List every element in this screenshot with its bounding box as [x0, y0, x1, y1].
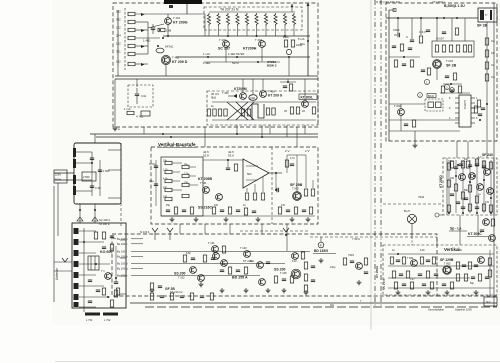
left rail x389: [388, 10, 390, 141]
top resistor row: [447, 159, 492, 170]
svg-text:Ca: Ca: [491, 39, 495, 43]
right border rail: [493, 3, 495, 307]
netz top riser: [94, 134, 96, 143]
cap near T602: [404, 120, 416, 127]
left rail caps: [149, 160, 158, 206]
svg-text:SF 129B: SF 129B: [440, 258, 454, 262]
trimmer oval 040: [249, 95, 257, 101]
svg-text:0.22: 0.22: [292, 260, 297, 263]
top-right outer fold lines: [374, 0, 376, 308]
label kt209a: [243, 259, 254, 263]
transistor T101: [208, 241, 226, 253]
wire riser col: [147, 22, 149, 54]
x-box bottom wire: [212, 119, 316, 121]
svg-text:7 90 6: 7 90 6: [352, 237, 360, 241]
transistor SS216C: [198, 194, 222, 210]
svg-text:T 402: T 402: [172, 56, 180, 60]
bus y36: [163, 35, 310, 37]
SS200 stage: [174, 272, 204, 282]
left-middle netz block: [74, 143, 121, 204]
svg-text:220V: 220V: [55, 173, 61, 177]
bottom bus line 2: [145, 306, 497, 308]
coil bar 2: [73, 159, 76, 168]
top-right lower cluster: [389, 56, 420, 67]
svg-text:T 102: T 102: [178, 276, 185, 280]
right-mid block top ticks: [447, 158, 494, 215]
top-right mid cluster2: [440, 86, 470, 93]
KT209G emitter wire: [167, 25, 169, 38]
KT 209C label: [467, 232, 489, 237]
filter box with resistors: [432, 41, 474, 57]
tiny labels bottom: [166, 204, 286, 207]
svg-text:.040: .040: [250, 96, 256, 100]
page bottom edge: [55, 361, 500, 363]
risers from top block: [144, 125, 305, 147]
top-right extra caps row: [392, 17, 438, 51]
top right riser wires: [287, 155, 306, 192]
antenna wires: [54, 262, 72, 271]
svg-text:Sp - La: Sp - La: [450, 227, 461, 231]
svg-text:T 802: T 802: [444, 262, 451, 266]
col wires: [172, 163, 198, 190]
svg-text:2 500: 2 500: [83, 175, 90, 179]
netz cap 1: [90, 158, 94, 164]
svg-text:132: 132: [116, 42, 121, 46]
resistor network sub-box: [204, 7, 302, 30]
circled 1: [424, 79, 429, 84]
svg-text:4.7k: 4.7k: [163, 178, 168, 181]
br transistor 2: [443, 266, 452, 275]
svg-text:1.4kΩ 547kΩ: 1.4kΩ 547kΩ: [228, 52, 244, 56]
svg-text:0.47: 0.47: [410, 278, 415, 281]
IC pin labels: [449, 97, 478, 120]
tuner wires h: [79, 231, 110, 307]
tuner trafo box: [88, 256, 99, 270]
svg-text:KT 209L: KT 209L: [301, 95, 313, 99]
if tiny labels: [186, 252, 336, 269]
svg-text:T 401: T 401: [173, 16, 181, 20]
netz cap 3: [90, 186, 101, 190]
svg-text:9kΩ: 9kΩ: [211, 96, 216, 100]
rects after staircase: [266, 108, 275, 115]
input resistor row 4: [116, 34, 160, 40]
title tick: [169, 5, 173, 8]
box label: [427, 94, 436, 98]
if long wire 2: [143, 262, 285, 264]
br transistor 1: [407, 256, 417, 266]
double wire y233: [240, 231, 437, 237]
pin row 1: [113, 237, 143, 241]
above-tuner diodes: [77, 217, 111, 226]
svg-text:SF 2B: SF 2B: [477, 24, 488, 28]
bottom bus of block: [161, 215, 315, 217]
right-mid extra row: [450, 161, 485, 177]
netz inner wires: [76, 152, 100, 196]
zigzag resistor bank: [207, 12, 295, 26]
svg-text:T 103: T 103: [240, 246, 247, 250]
transistor KT209H: [243, 38, 265, 51]
under-triangle resistors: [245, 177, 264, 200]
mains lines left: [54, 173, 74, 180]
X-pattern sub-box: [207, 91, 318, 125]
svg-text:0.47µ: 0.47µ: [149, 162, 156, 166]
double bus y137: [96, 136, 318, 138]
speaker circle: [404, 209, 417, 237]
transistor SC237: [218, 38, 230, 51]
svg-text:25µ: 25µ: [166, 204, 171, 207]
svg-text:1 mA: 1 mA: [124, 107, 131, 111]
svg-text:60a: 60a: [300, 42, 305, 46]
svg-text:470: 470: [222, 263, 227, 266]
Sp-La label: [449, 227, 467, 232]
mid cluster x345: [343, 253, 368, 274]
svg-text:820: 820: [163, 187, 168, 190]
pin row 4: [117, 255, 143, 259]
svg-text:547kΩ: 547kΩ: [165, 45, 173, 49]
SS200 second: [274, 268, 287, 276]
svg-text:BD 255 A: BD 255 A: [232, 276, 248, 280]
BD255A stage: [232, 276, 265, 286]
mid-right connect wires: [412, 215, 478, 245]
coil slug 2: [74, 239, 79, 245]
bottom component row: [166, 207, 194, 214]
x-box left stub: [211, 92, 219, 100]
transistor SF29B: [290, 183, 303, 200]
resistor rows col1: [165, 161, 172, 200]
left rail wire: [117, 10, 119, 66]
wire T602 drop: [400, 104, 402, 131]
svg-text:7904: 7904: [348, 253, 354, 257]
right rail labels: [491, 39, 495, 79]
svg-text:L 731: L 731: [86, 318, 93, 322]
netz right dashed edge: [120, 143, 122, 227]
resistor R601: [419, 28, 422, 43]
svg-text:C42: C42: [141, 94, 147, 98]
emitter wire KT209D: [165, 65, 167, 76]
below-tuner bar 2: [103, 313, 118, 316]
svg-text:6.8k: 6.8k: [186, 252, 191, 255]
transistor SF2B lower: [433, 59, 457, 68]
netz cap 2: [98, 169, 110, 173]
transistor KT209B: [198, 177, 212, 193]
svg-text:Tr: Tr: [485, 13, 488, 17]
svg-text:53.6: 53.6: [228, 154, 234, 158]
bus dots: [227, 35, 286, 37]
svg-text:BCO: BCO: [428, 94, 435, 98]
bottom title text: [428, 308, 472, 312]
IF band dashed border: [112, 234, 437, 296]
x-box top wire: [212, 101, 316, 103]
svg-text:C 58: C 58: [95, 186, 101, 190]
svg-text:302: 302: [116, 18, 121, 22]
top margin text row: [376, 0, 445, 4]
svg-text:502: 502: [247, 172, 252, 176]
IC U601: [455, 95, 475, 127]
left col comps: [114, 246, 118, 297]
GF2B stage: [150, 283, 175, 291]
br right column: [488, 250, 491, 296]
pin row 3: [117, 250, 143, 254]
br wire rows: [388, 254, 494, 288]
coil slug 3: [74, 250, 79, 256]
pin row 2: [117, 242, 143, 246]
svg-text:T 105: T 105: [280, 271, 287, 275]
bold mini label KT208: [267, 60, 277, 68]
coil slug 7: [74, 294, 79, 300]
right col resistors: [304, 180, 314, 196]
top resistor pair right: [285, 157, 295, 167]
title black bar: [164, 0, 202, 4]
drops from vertikal block: [180, 224, 287, 251]
antenna-arrow top1: [152, 228, 158, 240]
svg-text:SS 200: SS 200: [274, 268, 286, 272]
svg-text:122: 122: [116, 26, 121, 30]
svg-text:Bu 100 c: Bu 100 c: [117, 242, 128, 246]
transistor T104: [257, 262, 271, 269]
risers from double bus to x-box: [243, 79, 305, 100]
far right rect: [312, 107, 315, 114]
tr upper caps row2: [426, 17, 459, 35]
riser to bus: [117, 66, 119, 76]
node dot r1: [159, 29, 161, 31]
bottom numbers row: [330, 300, 362, 307]
br cluster 3: [456, 262, 478, 269]
tuner right ticks: [120, 240, 126, 294]
svg-text:T 405: T 405: [222, 91, 229, 95]
br cluster 2: [420, 257, 435, 264]
capacitor C402: [151, 24, 155, 34]
main bus y18: [386, 17, 478, 19]
dashed link y200: [383, 203, 443, 205]
svg-text:Bu 100 a: Bu 100 a: [117, 255, 128, 259]
ground left: [113, 79, 120, 131]
right resistor group: [290, 107, 299, 114]
transistor KT209G: [165, 16, 188, 25]
svg-text:470: 470: [281, 204, 286, 207]
bottom-right vertikal block: [383, 245, 497, 295]
transistor KT209D: [161, 55, 187, 64]
transistor T602: [394, 104, 404, 115]
staircase wire: [252, 104, 264, 120]
pin row 6: [117, 267, 143, 271]
label KT209M: [222, 87, 247, 95]
netz small box: [82, 172, 96, 181]
resistor 4.7k: [124, 107, 143, 119]
svg-text:1.4kΩ: 1.4kΩ: [143, 39, 150, 43]
label 1.4k bus: [228, 52, 244, 58]
svg-text:Bu 5: Bu 5: [404, 209, 410, 213]
rm tiny labels: [450, 156, 490, 204]
svg-text:8.2k: 8.2k: [420, 249, 425, 252]
tiny value labels: [163, 160, 189, 199]
top-right block dashed border: [386, 3, 497, 141]
svg-text:B,20N)1 1 2U: B,20N)1 1 2U: [444, 4, 465, 8]
coil bar 4: [73, 186, 76, 195]
svg-text:Bu 100 g: Bu 100 g: [117, 267, 128, 271]
svg-text:KT 209G: KT 209G: [173, 21, 188, 25]
top-left block dashed border: [113, 3, 318, 127]
mid caps: [226, 159, 238, 171]
svg-text:Cb: Cb: [491, 51, 495, 55]
wire y120: [389, 119, 459, 121]
br cluster row3: [456, 274, 489, 281]
resistor R405: [158, 28, 172, 32]
double bus y76: [115, 75, 318, 77]
tuner dots: [83, 241, 109, 298]
svg-text:T 501: T 501: [200, 181, 207, 185]
svg-text:1.2k: 1.2k: [163, 169, 168, 172]
coil slug 1: [74, 228, 79, 234]
netz bottom drops: [54, 183, 95, 302]
svg-text:Bu 100 e: Bu 100 e: [117, 274, 128, 278]
inner solid box: [161, 157, 203, 216]
rail stub top: [389, 9, 396, 12]
title drop wire: [186, 4, 188, 14]
bottom dashed bus: [437, 295, 497, 297]
svg-text:A 205 D: A 205 D: [463, 100, 467, 109]
coil bar 3: [73, 175, 76, 184]
svg-text:2 V: 2 V: [305, 149, 310, 153]
cap C602: [406, 33, 414, 42]
right rail x308: [298, 3, 309, 77]
double bus y134: [90, 133, 318, 135]
svg-text:7904: 7904: [418, 195, 425, 199]
svg-text:KT209H: KT209H: [243, 47, 257, 51]
bottom grounds: [170, 217, 311, 222]
svg-text:52.8: 52.8: [203, 154, 209, 158]
zigzag drops to bus: [209, 26, 294, 36]
if long wire 1: [143, 250, 310, 252]
svg-text:Bu 100 f: Bu 100 f: [117, 250, 127, 254]
cap row mid: [275, 173, 279, 192]
br grounds: [396, 290, 479, 295]
BD135 label: [313, 249, 336, 254]
node dot r2: [162, 37, 164, 39]
vertikal-baustufe block dashed border: [151, 147, 318, 224]
rm bottom pins: [448, 212, 492, 214]
svg-text:KT 209B: KT 209B: [198, 177, 212, 181]
Y junction arrow: [283, 228, 289, 236]
svg-text:C: C: [406, 35, 408, 39]
input resistor row 3: [116, 26, 148, 32]
svg-text:TA 207 2x N: TA 207 2x N: [220, 8, 239, 12]
svg-text:O [0] | [4X 10K 10L: O [0] | [4X 10K 10L: [376, 0, 401, 4]
right-middle block border: [443, 158, 497, 215]
left resistor group: [207, 109, 227, 116]
svg-text:T 101: T 101: [208, 241, 215, 245]
transistor T103: [240, 246, 250, 257]
svg-text:4.7k: 4.7k: [290, 157, 295, 160]
below-tuner text: [86, 318, 111, 322]
svg-text:SS 200: SS 200: [174, 272, 186, 276]
svg-text:KT209M: KT209M: [234, 87, 247, 91]
svg-text:1 mΩ: 1 mΩ: [203, 52, 210, 56]
pin row 7: [117, 274, 143, 278]
coil slug 5: [74, 272, 79, 278]
wire y160: [203, 159, 243, 161]
bottom wire y131: [389, 130, 460, 132]
svg-text:T 404: T 404: [255, 38, 263, 42]
tuner caps: [88, 280, 120, 307]
small dashed box lower-left: [128, 85, 153, 107]
svg-text:SF 240: SF 240: [482, 153, 493, 157]
svg-text:301: 301: [330, 304, 335, 307]
rm bottom-right comps: [480, 219, 496, 242]
br bottom row: [394, 282, 453, 289]
bottom-right corner box: [484, 297, 497, 306]
transistor T405: [228, 93, 246, 100]
x-box labels: [211, 104, 305, 113]
svg-text:1.8k: 1.8k: [166, 29, 172, 33]
rm dots: [455, 175, 492, 199]
up arrow x292: [291, 4, 293, 13]
svg-text:50Hz: 50Hz: [55, 178, 62, 182]
svg-text:KT 209D: KT 209D: [439, 175, 443, 188]
tuner small rects top: [94, 232, 114, 251]
small parts row b: [150, 293, 213, 300]
svg-text:P: P: [320, 244, 322, 248]
antenna arrow: [62, 258, 68, 262]
svg-text:2 V: 2 V: [285, 149, 290, 153]
svg-text:T 503: T 503: [292, 187, 299, 191]
svg-text:2.2k: 2.2k: [184, 173, 189, 176]
tuner transistor: [101, 269, 111, 279]
br cluster 1: [390, 253, 405, 264]
svg-text:6 mA: 6 mA: [298, 37, 305, 41]
svg-text:KT 209 D: KT 209 D: [172, 60, 188, 64]
triangle out wire: [269, 172, 282, 174]
svg-text:KT 209A: KT 209A: [243, 259, 254, 263]
svg-text:Stromlaufplan: Stromlaufplan: [428, 308, 445, 312]
svg-text:2T 100(1): 2T 100(1): [432, 0, 445, 4]
svg-text:Vertikal-Baustufe: Vertikal-Baustufe: [158, 142, 196, 147]
if long wire 3: [143, 274, 260, 276]
br transistor 3: [478, 257, 485, 264]
bus y57: [176, 56, 310, 58]
svg-text:100: 100: [214, 204, 219, 207]
inner column dashed border: [124, 8, 126, 70]
svg-text:100µ: 100µ: [330, 266, 336, 269]
svg-text:T 1: T 1: [101, 269, 105, 273]
tuner block: [72, 223, 126, 308]
input resistor row 6: [116, 50, 148, 56]
transistor circles rm: [459, 169, 494, 195]
antenna-arrow top2: [140, 228, 173, 240]
svg-text:100: 100: [163, 196, 168, 199]
coil slug 6: [74, 283, 79, 289]
coil slug 4: [74, 261, 79, 267]
svg-text:SC 237: SC 237: [218, 47, 230, 51]
double bus y79: [115, 78, 318, 80]
svg-text:102: 102: [116, 60, 121, 64]
transistor T407: [302, 101, 309, 108]
SF129B label: [440, 258, 454, 266]
oval trimmer: [156, 48, 164, 53]
svg-text:1.4kΩ: 1.4kΩ: [203, 61, 210, 65]
svg-text:T 602: T 602: [394, 104, 402, 108]
IC right extra: [471, 106, 485, 121]
input resistor row 1: [116, 10, 205, 16]
lower labels row: [203, 61, 280, 65]
svg-text:KT 209C: KT 209C: [468, 232, 482, 236]
cap C601: [393, 28, 400, 37]
svg-text:KT 209A: KT 209A: [375, 265, 379, 278]
circled 4: [450, 88, 455, 93]
svg-text:120: 120: [458, 249, 463, 252]
svg-text:GF 2B: GF 2B: [165, 287, 175, 291]
transistor T406: [260, 90, 283, 98]
circled 2: [444, 84, 449, 89]
